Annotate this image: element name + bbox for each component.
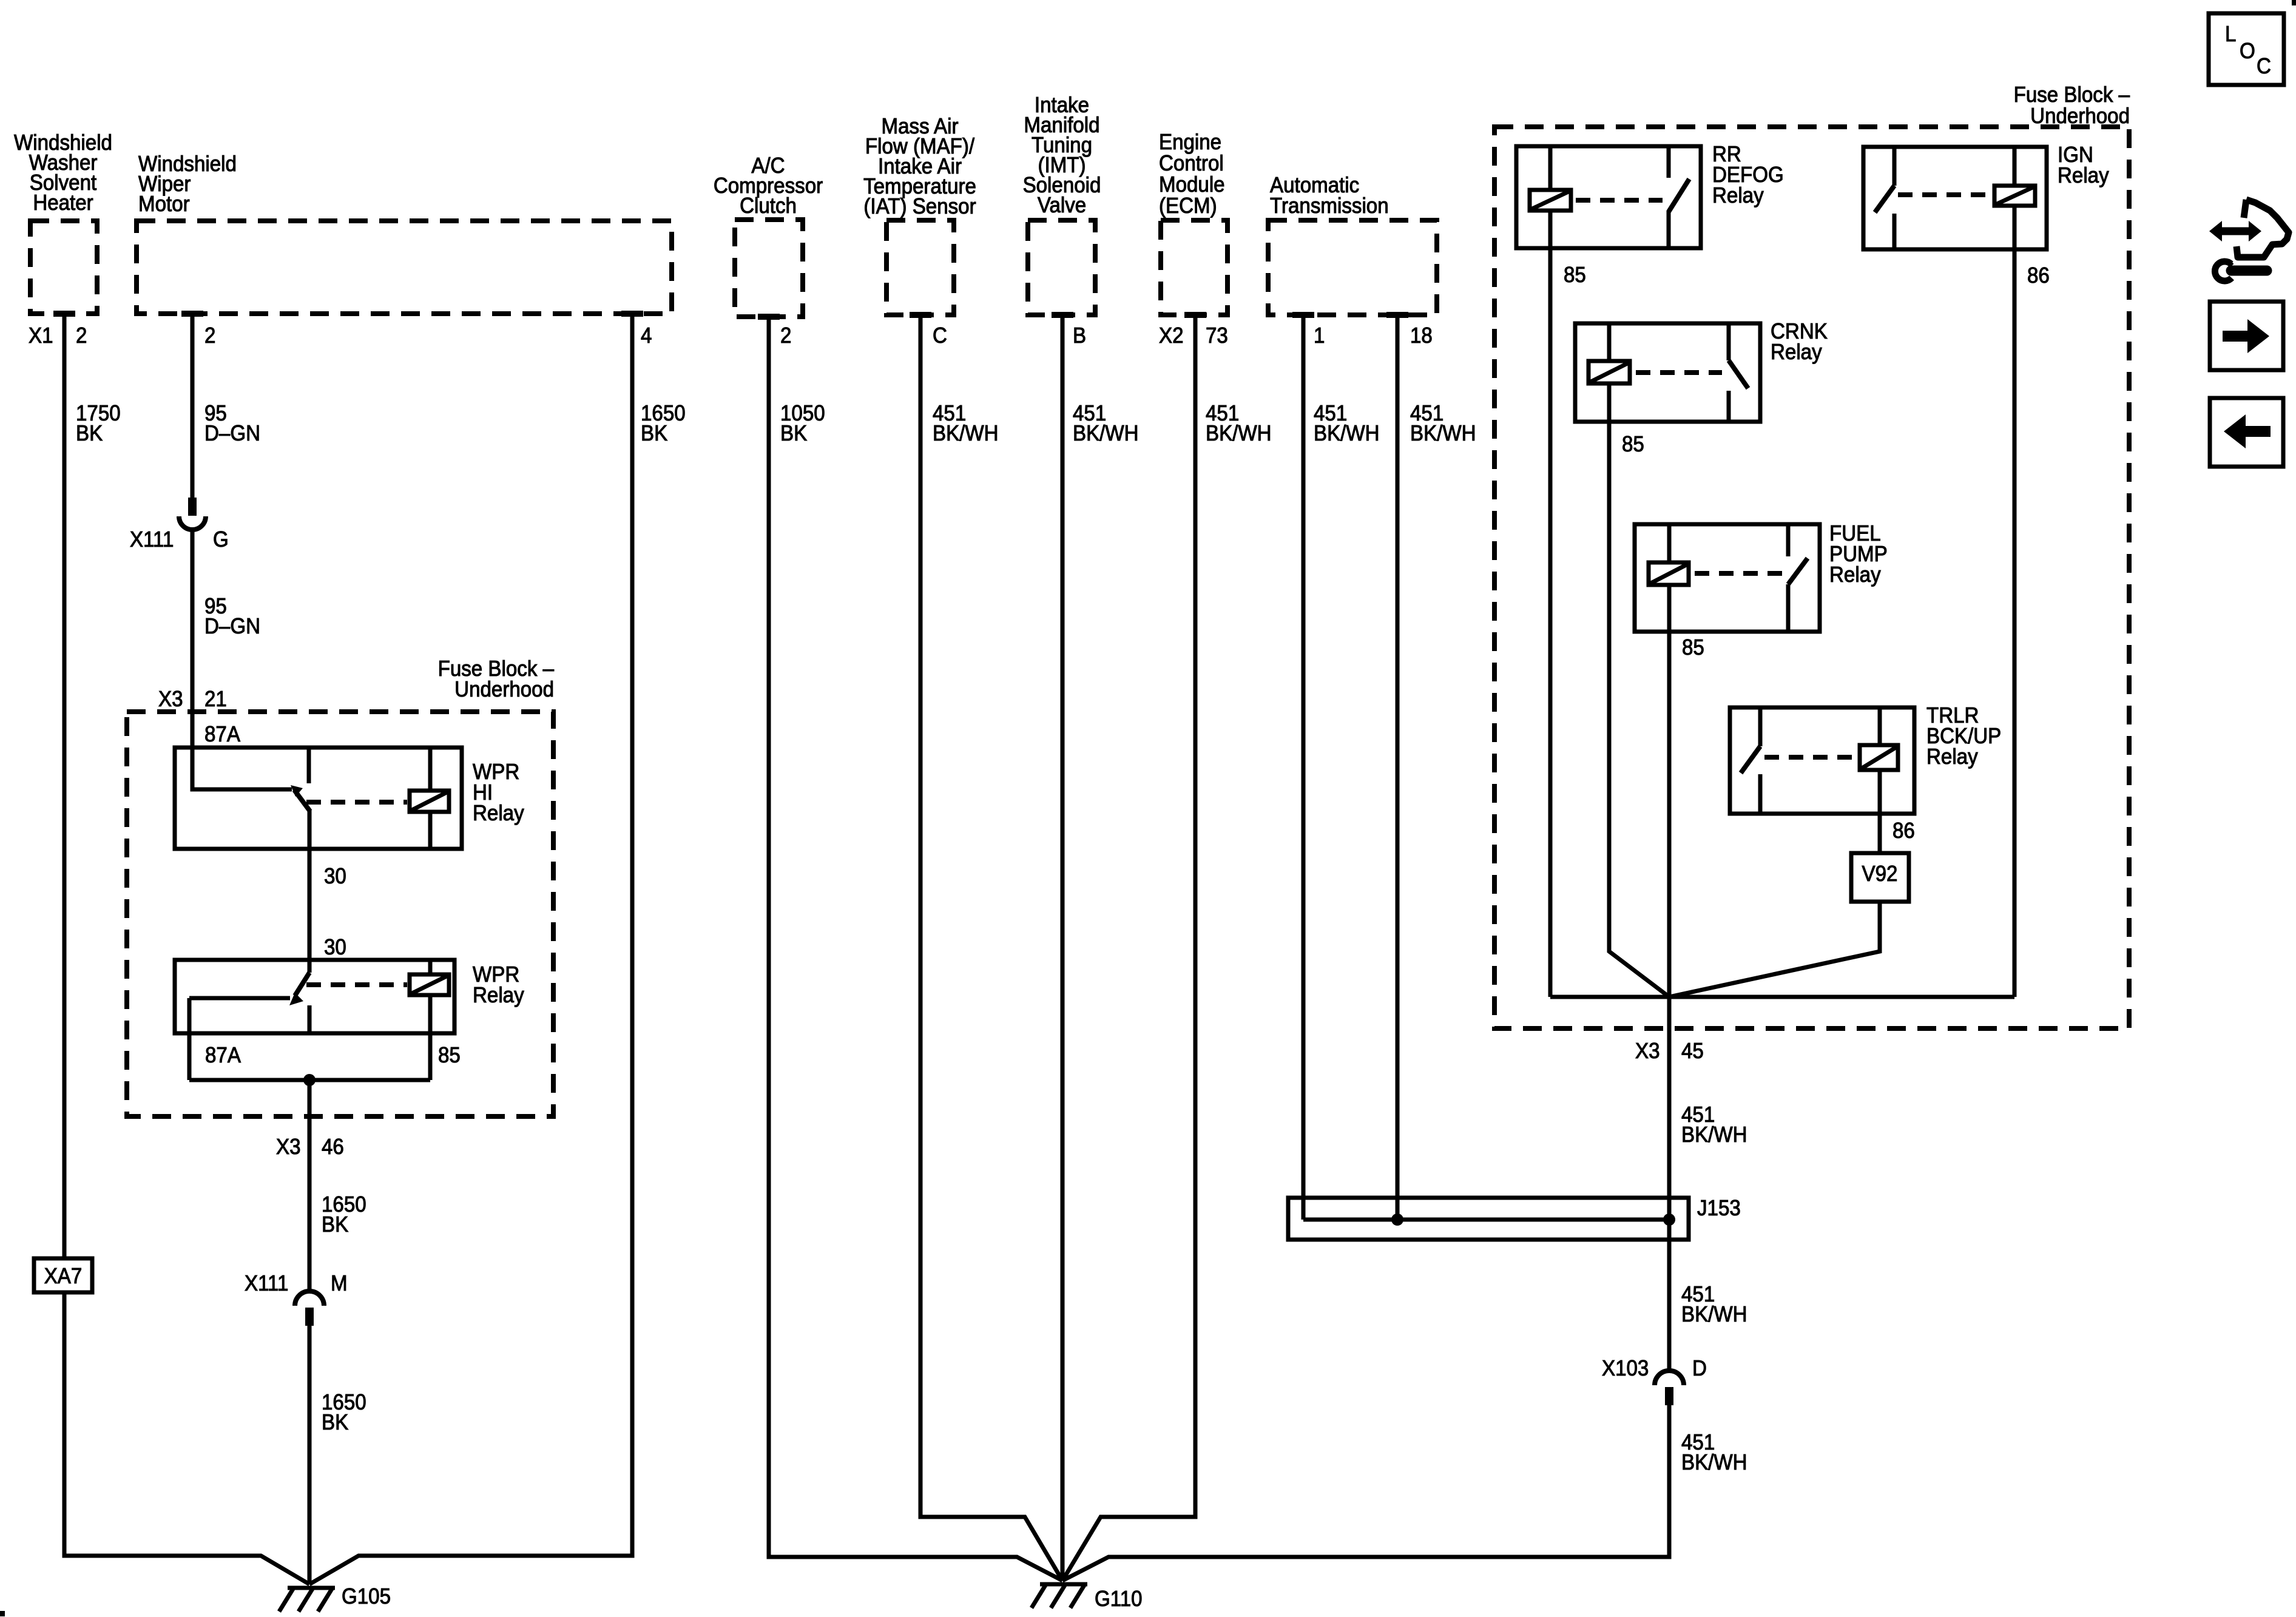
- wire IMT 451 to G110: [1061, 315, 1065, 1581]
- pin label X2 73 (ECM): [1159, 324, 1228, 348]
- fuse block underhood left (dashed box): [127, 657, 555, 1116]
- wire MAF 451 to G110: [920, 315, 1062, 1581]
- wire 95 D-GN from X111 G to fuse block: [191, 528, 195, 748]
- wire label 1650 BK (lower): [322, 1391, 366, 1435]
- fuse block underhood right (dashed box): [1494, 83, 2130, 1028]
- wire label 1650 BK (pin 4): [641, 402, 686, 446]
- wire IGN 86 down: [2013, 249, 2017, 997]
- svg-text:86: 86: [2027, 264, 2050, 288]
- svg-text:Relay: Relay: [2058, 164, 2109, 188]
- wire label 95 D-GN: [204, 402, 260, 446]
- svg-text:C: C: [2257, 55, 2271, 79]
- svg-text:X111: X111: [130, 528, 174, 552]
- icon backward arrow box: [2210, 398, 2283, 467]
- svg-text:D–GN: D–GN: [204, 422, 260, 446]
- icon harness arrow and wrench: [2209, 200, 2289, 281]
- wire AT pin 1 to J153: [1302, 315, 1306, 1220]
- splice V92 (box): [1851, 853, 1909, 902]
- wire A/C 1050 BK to G110: [769, 317, 1062, 1581]
- pin label X3 46: [276, 1135, 344, 1160]
- svg-text:BK/WH: BK/WH: [933, 422, 999, 446]
- corner mark bottom left: [0, 1611, 5, 1616]
- svg-text:45: 45: [1681, 1039, 1704, 1064]
- svg-text:BK/WH: BK/WH: [1681, 1303, 1747, 1327]
- svg-text:85: 85: [1622, 433, 1644, 457]
- wire CRNK 85 down to junction: [1609, 422, 1669, 997]
- svg-text:18: 18: [1410, 324, 1433, 348]
- svg-text:(ECM): (ECM): [1159, 194, 1217, 218]
- connector X111 G (inline connector): [130, 498, 229, 552]
- svg-text:X1: X1: [29, 324, 53, 348]
- svg-text:Relay: Relay: [473, 802, 524, 826]
- svg-text:Relay: Relay: [1771, 340, 1822, 365]
- relay CRNK Relay: [1575, 320, 1828, 422]
- svg-text:BK/WH: BK/WH: [1681, 1123, 1747, 1147]
- svg-text:G: G: [213, 528, 229, 552]
- svg-text:Relay: Relay: [1926, 745, 1978, 769]
- svg-text:BK: BK: [641, 422, 667, 446]
- svg-text:Fuse Block –: Fuse Block –: [2014, 83, 2130, 107]
- relay IGN Relay: [1863, 143, 2109, 249]
- wire label 1050 BK: [780, 402, 825, 446]
- connector XA7 (inline box): [34, 1258, 92, 1292]
- svg-text:Relay: Relay: [1712, 184, 1764, 208]
- svg-text:BK/WH: BK/WH: [1314, 422, 1380, 446]
- svg-text:O: O: [2240, 39, 2255, 64]
- svg-text:Underhood: Underhood: [2030, 104, 2130, 129]
- component Engine Control Module (ECM) (dashed box): [1159, 130, 1227, 318]
- svg-text:BK/WH: BK/WH: [1410, 422, 1476, 446]
- svg-text:Heater: Heater: [33, 191, 93, 215]
- wire label 451 BK/WH (below J153): [1681, 1283, 1747, 1327]
- corner mark top right: [2292, 0, 2296, 5]
- pin label X1 2 (washer): [29, 324, 87, 348]
- svg-text:BK/WH: BK/WH: [1073, 422, 1139, 446]
- svg-text:85: 85: [1682, 636, 1704, 660]
- relay FUEL PUMP Relay: [1635, 522, 1888, 632]
- svg-text:21: 21: [204, 687, 227, 712]
- wire horizontal junction in fuse block: [1550, 995, 2014, 999]
- relay WPR HI Relay: [175, 748, 524, 849]
- svg-text:X3: X3: [158, 687, 183, 712]
- wire label 1750 BK: [76, 402, 121, 446]
- svg-text:2: 2: [204, 324, 215, 348]
- wire label 451 BK/WH (IMT): [1073, 402, 1139, 446]
- wire label 451 BK/WH (below X3 45): [1681, 1103, 1747, 1147]
- wire AT pin 18 to J153: [1396, 315, 1400, 1220]
- component Mass Air Flow (MAF)/Intake Air Temperature (IAT) Sensor (dashed box): [863, 115, 976, 318]
- svg-text:Valve: Valve: [1038, 194, 1086, 218]
- wire wiper pin 4 (1650 BK) to G105: [309, 314, 632, 1584]
- svg-text:Motor: Motor: [138, 192, 190, 217]
- svg-text:B: B: [1073, 324, 1086, 348]
- component Intake Manifold Tuning (IMT) Solenoid Valve (dashed box): [1023, 93, 1101, 318]
- wire bus below WPR relay: [189, 1078, 430, 1082]
- junction block J153: [1288, 1197, 1741, 1240]
- svg-text:2: 2: [780, 324, 791, 348]
- svg-text:G105: G105: [342, 1585, 391, 1609]
- svg-text:85: 85: [1564, 263, 1586, 288]
- svg-text:J153: J153: [1697, 1197, 1741, 1221]
- connector X111 M (inline connector): [245, 1272, 348, 1326]
- svg-text:87A: 87A: [205, 1044, 241, 1068]
- svg-text:BK: BK: [76, 422, 103, 446]
- connector X103 D (inline connector): [1602, 1357, 1707, 1405]
- svg-text:30: 30: [324, 936, 346, 960]
- svg-text:Relay: Relay: [473, 984, 524, 1008]
- svg-text:BK/WH: BK/WH: [1206, 422, 1272, 446]
- svg-text:C: C: [933, 324, 947, 348]
- svg-text:85: 85: [438, 1044, 461, 1068]
- svg-text:73: 73: [1206, 324, 1228, 348]
- wire 30 between relays: [308, 849, 312, 960]
- svg-text:Transmission: Transmission: [1270, 194, 1389, 218]
- svg-text:Underhood: Underhood: [454, 678, 554, 702]
- svg-text:BK: BK: [780, 422, 807, 446]
- svg-text:L: L: [2225, 22, 2236, 47]
- svg-text:D–GN: D–GN: [204, 615, 260, 639]
- svg-text:X2: X2: [1159, 324, 1183, 348]
- svg-text:X111: X111: [245, 1272, 288, 1296]
- svg-text:86: 86: [1893, 819, 1915, 843]
- svg-text:30: 30: [324, 865, 346, 889]
- wire label 1650 BK (upper): [322, 1193, 366, 1237]
- svg-text:1: 1: [1314, 324, 1325, 348]
- wire washer heater to XA7 to G105: [64, 314, 309, 1584]
- wire label 451 BK/WH (AT 1): [1314, 402, 1380, 446]
- wire label 451 BK/WH (ECM): [1206, 402, 1272, 446]
- icon forward arrow box: [2210, 302, 2283, 370]
- svg-text:BK: BK: [322, 1411, 348, 1435]
- wire RR DEFOG 85 down: [1548, 248, 1553, 997]
- component Windshield Washer Solvent Heater (dashed box): [14, 131, 112, 317]
- svg-text:4: 4: [641, 324, 652, 348]
- relay WPR Relay: [175, 960, 524, 1080]
- ground G105: [279, 1585, 391, 1612]
- wire label 451 BK/WH (AT 18): [1410, 402, 1476, 446]
- wire ECM 451 to G110: [1062, 315, 1195, 1581]
- wire V92 down to junction: [1669, 902, 1880, 997]
- svg-text:2: 2: [76, 324, 87, 348]
- relay RR DEFOG Relay: [1516, 143, 1784, 248]
- svg-text:Relay: Relay: [1829, 563, 1881, 587]
- junction dot WPR output: [303, 1074, 316, 1086]
- svg-text:Module: Module: [1159, 173, 1225, 197]
- svg-text:V92: V92: [1862, 862, 1898, 886]
- svg-text:XA7: XA7: [44, 1264, 83, 1289]
- svg-text:BK: BK: [322, 1213, 348, 1237]
- icon LOC box: [2209, 13, 2284, 85]
- wire label 451 BK/WH (below X103): [1681, 1431, 1747, 1475]
- pin label X3 21: [158, 687, 227, 712]
- svg-text:Engine: Engine: [1159, 130, 1221, 155]
- pin label X3 45: [1635, 1039, 1704, 1064]
- relay TRLR BCK/UP Relay: [1730, 704, 2001, 814]
- svg-text:M: M: [331, 1272, 348, 1296]
- svg-text:BK/WH: BK/WH: [1681, 1451, 1747, 1475]
- svg-text:X103: X103: [1602, 1357, 1649, 1381]
- svg-text:Clutch: Clutch: [740, 194, 797, 218]
- wire FUEL PUMP 85 down (main 451 wire): [1667, 632, 1672, 1371]
- component Windshield Wiper Motor (dashed box): [137, 152, 672, 317]
- svg-text:Control: Control: [1159, 152, 1224, 176]
- svg-text:G110: G110: [1095, 1587, 1143, 1612]
- wire label 451 BK/WH (MAF): [933, 402, 999, 446]
- svg-text:X3: X3: [276, 1135, 300, 1160]
- ground G110: [1032, 1584, 1143, 1611]
- svg-text:87A: 87A: [204, 723, 240, 747]
- svg-text:D: D: [1692, 1357, 1707, 1381]
- svg-text:X3: X3: [1635, 1039, 1660, 1064]
- wire X111 M to G105: [308, 1326, 312, 1584]
- component A/C Compressor Clutch (dashed box): [714, 154, 823, 320]
- wire X103 to G110: [1062, 1405, 1669, 1581]
- svg-text:(IAT) Sensor: (IAT) Sensor: [863, 195, 976, 219]
- svg-text:46: 46: [322, 1135, 344, 1160]
- wire WPR output down: [308, 1080, 312, 1291]
- wire wiper pin 2 (95 D-GN) down to X111 G: [191, 314, 195, 499]
- wire TRLR 86 to V92: [1878, 814, 1882, 853]
- component Automatic Transmission (dashed box): [1268, 174, 1437, 318]
- wire label 95 D-GN (lower): [204, 595, 260, 639]
